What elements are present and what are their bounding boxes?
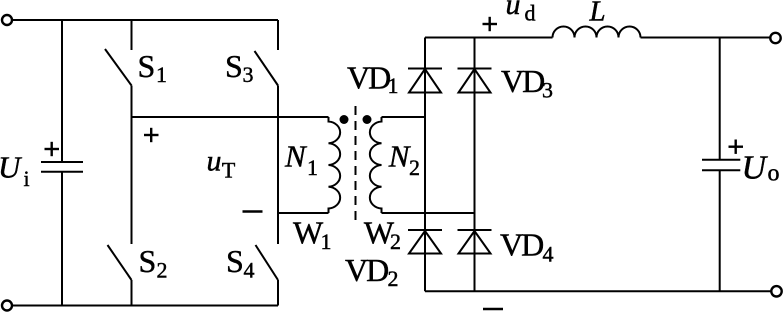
svg-text:T: T (222, 158, 236, 183)
svg-text:d: d (525, 1, 536, 26)
svg-text:S: S (138, 48, 156, 84)
svg-text:2: 2 (390, 229, 401, 254)
svg-text:3: 3 (243, 62, 254, 87)
svg-text:N: N (284, 139, 308, 174)
svg-text:S: S (139, 243, 157, 279)
svg-text:4: 4 (543, 242, 554, 267)
svg-text:VD: VD (501, 63, 544, 99)
svg-text:S: S (225, 48, 243, 84)
svg-text:S: S (226, 243, 244, 279)
svg-text:2: 2 (409, 155, 420, 180)
svg-text:i: i (24, 166, 30, 191)
svg-text:VD: VD (347, 59, 390, 95)
svg-text:VD: VD (500, 227, 543, 263)
svg-text:VD: VD (345, 252, 388, 288)
svg-text:U: U (0, 150, 23, 185)
svg-text:1: 1 (321, 229, 332, 254)
svg-text:U: U (742, 150, 769, 187)
svg-text:u: u (506, 0, 521, 21)
svg-text:W: W (293, 214, 324, 250)
svg-text:1: 1 (156, 62, 167, 87)
svg-text:2: 2 (388, 266, 399, 291)
svg-text:4: 4 (244, 258, 255, 283)
svg-text:u: u (207, 145, 222, 178)
svg-text:L: L (589, 0, 606, 28)
svg-text:o: o (768, 161, 780, 187)
svg-text:1: 1 (307, 155, 318, 180)
svg-text:3: 3 (542, 78, 553, 103)
svg-text:2: 2 (157, 258, 168, 283)
svg-text:1: 1 (388, 73, 399, 98)
